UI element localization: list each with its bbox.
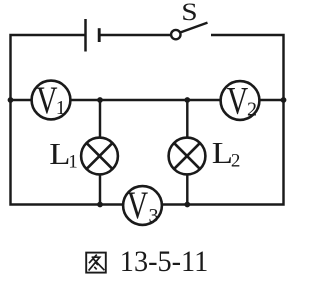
wire lamp L2 branch [186,100,188,205]
node L2 bottom junction [184,202,190,208]
svg-text:V: V [127,184,148,227]
voltmeter V3 [123,184,162,227]
label L2 [212,137,241,172]
label L1 [49,138,77,173]
wire battery to switch [100,34,171,36]
svg-text:1: 1 [56,97,66,119]
svg-text:L: L [212,137,233,171]
switch S [171,23,207,40]
svg-text:1: 1 [68,152,78,173]
svg-text:V: V [36,79,57,122]
node L1 bottom junction [97,202,103,208]
svg-text:2: 2 [231,151,241,172]
svg-text:3: 3 [149,205,159,227]
svg-text:S: S [181,0,197,26]
voltmeter V2 [221,80,260,123]
node right-mid junction [281,97,287,103]
lamp L2 [169,138,206,175]
node left-mid junction [8,97,14,103]
svg-text:V: V [227,80,248,123]
wire middle bus [11,99,284,101]
svg-text:13-5-11: 13-5-11 [120,245,209,278]
lamp L1 [81,138,118,175]
svg-text:2: 2 [247,99,257,121]
battery cell [86,19,100,52]
node L2 top junction [184,97,190,103]
wire lamp L1 branch [99,100,101,205]
caption character 图 [86,253,106,273]
wire outer loop (left, bottom, right sides with top stubs) [11,35,284,205]
node L1 top junction [97,97,103,103]
voltmeter V1 [32,79,71,122]
